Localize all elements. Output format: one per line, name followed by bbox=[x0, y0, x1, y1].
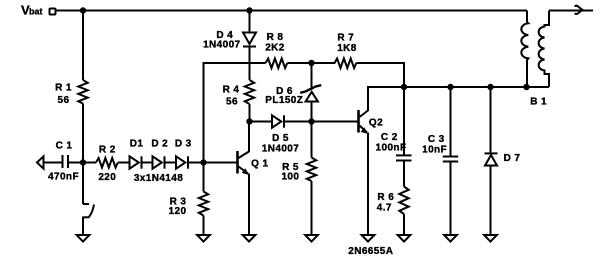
resistor R1 bbox=[78, 80, 87, 104]
wire D1 to D2 bbox=[142, 162, 153, 164]
switch S1 arm bbox=[89, 205, 94, 218]
node junction top R1 bbox=[80, 7, 86, 13]
wire top bus bbox=[56, 10, 528, 12]
node junction C3 bbox=[447, 84, 453, 90]
svg-text:1N4007: 1N4007 bbox=[203, 40, 240, 51]
wire C1 to node bbox=[68, 162, 96, 164]
svg-text:10nF: 10nF bbox=[422, 144, 447, 155]
ground under C3 bbox=[444, 235, 457, 242]
wire switch branch bbox=[83, 163, 89, 205]
wire R1 to node bbox=[82, 104, 84, 163]
wire R8 to node bbox=[287, 62, 311, 64]
ground under D7 bbox=[484, 235, 497, 242]
svg-text:R 6: R 6 bbox=[377, 192, 394, 203]
svg-text:C 2: C 2 bbox=[381, 132, 398, 143]
transformer B1 primary bbox=[521, 11, 528, 88]
ground under R3 bbox=[197, 235, 210, 242]
svg-text:C 3: C 3 bbox=[428, 134, 445, 145]
diode D1 bbox=[130, 156, 142, 168]
svg-text:4.7: 4.7 bbox=[377, 203, 392, 214]
svg-text:3x1N4148: 3x1N4148 bbox=[134, 173, 183, 184]
svg-text:R 4: R 4 bbox=[223, 85, 240, 96]
svg-text:R 8: R 8 bbox=[267, 32, 284, 43]
diode D5 bbox=[272, 115, 284, 127]
resistor R5 bbox=[307, 122, 316, 236]
wire D5 to node bbox=[284, 121, 312, 123]
wire input to C1 bbox=[44, 162, 62, 164]
ground under Q1 bbox=[243, 235, 256, 242]
wire secondary output bbox=[549, 10, 593, 12]
diode D2 bbox=[153, 156, 165, 168]
svg-text:bat: bat bbox=[29, 7, 43, 17]
svg-text:D 2: D 2 bbox=[151, 139, 168, 150]
node junction base Q1 bbox=[200, 159, 206, 165]
node junction D5/D6/R5/Q2 base bbox=[308, 118, 314, 124]
svg-text:100nF: 100nF bbox=[376, 143, 407, 154]
wire R1 branch bbox=[82, 11, 84, 81]
wire D4 to R4 bbox=[249, 47, 251, 81]
transformer B1 secondary bbox=[539, 11, 549, 88]
svg-text:56: 56 bbox=[226, 97, 238, 108]
wire D6 top bbox=[311, 63, 313, 90]
wire R6 to ground bbox=[403, 214, 405, 235]
svg-text:R 2: R 2 bbox=[99, 145, 116, 156]
wire R2 to D1 bbox=[118, 162, 130, 164]
svg-text:D1: D1 bbox=[130, 139, 144, 150]
node junction B1 bbox=[523, 84, 529, 90]
svg-text:1K8: 1K8 bbox=[337, 43, 357, 54]
wire C2 to R6 bbox=[403, 162, 405, 187]
zener diode D6 bbox=[300, 85, 321, 101]
svg-text:D 3: D 3 bbox=[175, 139, 192, 150]
svg-text:D 5: D 5 bbox=[272, 133, 289, 144]
resistor R3 bbox=[199, 163, 208, 236]
transistor Q1 bbox=[204, 122, 250, 236]
wire switch lower contact bbox=[82, 217, 89, 235]
svg-text:Q 1: Q 1 bbox=[251, 159, 268, 170]
svg-text:2N6655A: 2N6655A bbox=[348, 246, 393, 257]
diode D7 bbox=[485, 153, 498, 165]
svg-text:B 1: B 1 bbox=[530, 97, 547, 108]
node Vbat label bbox=[21, 3, 43, 18]
svg-text:C 1: C 1 bbox=[56, 141, 73, 152]
svg-text:R 7: R 7 bbox=[337, 33, 354, 44]
wire D6 to node bbox=[311, 102, 313, 122]
ground under R6 bbox=[398, 235, 411, 242]
svg-text:R 1: R 1 bbox=[55, 83, 72, 94]
transistor Q2 bbox=[312, 87, 405, 235]
svg-text:470nF: 470nF bbox=[48, 172, 79, 183]
resistor R2 bbox=[96, 158, 118, 168]
wire C3 branch bbox=[450, 87, 452, 156]
wire D7 branch bbox=[490, 87, 492, 152]
terminal Vbat bbox=[50, 9, 56, 15]
node junction D7 bbox=[487, 84, 493, 90]
svg-text:2K2: 2K2 bbox=[265, 43, 285, 54]
node junction R4/D5/Q1 collector bbox=[246, 118, 252, 124]
svg-text:100: 100 bbox=[281, 172, 299, 183]
resistor R4 bbox=[245, 80, 254, 104]
capacitor C3 bbox=[443, 157, 458, 162]
resistor R6 bbox=[399, 187, 408, 215]
node junction C1/R1/R2/switch bbox=[80, 159, 86, 165]
wire output bus bbox=[404, 86, 549, 88]
ground under switch bbox=[77, 235, 90, 242]
diode D4 bbox=[243, 33, 256, 47]
terminal input arrow bbox=[37, 156, 44, 168]
ground under Q2 bbox=[362, 235, 375, 242]
wire D3 to node bbox=[188, 162, 204, 164]
ground under R5 bbox=[305, 235, 318, 242]
wire node to D5 bbox=[250, 121, 273, 123]
svg-text:120: 120 bbox=[169, 206, 187, 217]
wire R4 to node bbox=[249, 104, 251, 122]
svg-text:PL150Z: PL150Z bbox=[265, 95, 303, 106]
capacitor C2 bbox=[396, 155, 412, 160]
capacitor C1 bbox=[63, 155, 69, 168]
node junction R8/R7/D6 bbox=[308, 60, 314, 66]
wire D4 branch bbox=[249, 11, 251, 33]
svg-text:D 7: D 7 bbox=[504, 153, 521, 164]
node junction top D4 bbox=[246, 7, 252, 13]
wire R8 left branch bbox=[204, 63, 266, 163]
terminal output arrow bbox=[575, 6, 583, 14]
svg-text:1N4007: 1N4007 bbox=[262, 144, 299, 155]
wire C3 to ground bbox=[450, 163, 452, 236]
node junction R7/C2 bbox=[401, 84, 407, 90]
diode D3 bbox=[176, 156, 188, 168]
wire D7 to ground bbox=[490, 166, 492, 236]
wire D2 to D3 bbox=[165, 162, 177, 164]
svg-text:Q2: Q2 bbox=[369, 118, 383, 129]
svg-text:56: 56 bbox=[58, 95, 70, 106]
resistor R8 bbox=[266, 59, 288, 69]
resistor R7 bbox=[312, 59, 405, 88]
svg-text:220: 220 bbox=[98, 172, 116, 183]
wire C2 branch bbox=[403, 87, 405, 154]
